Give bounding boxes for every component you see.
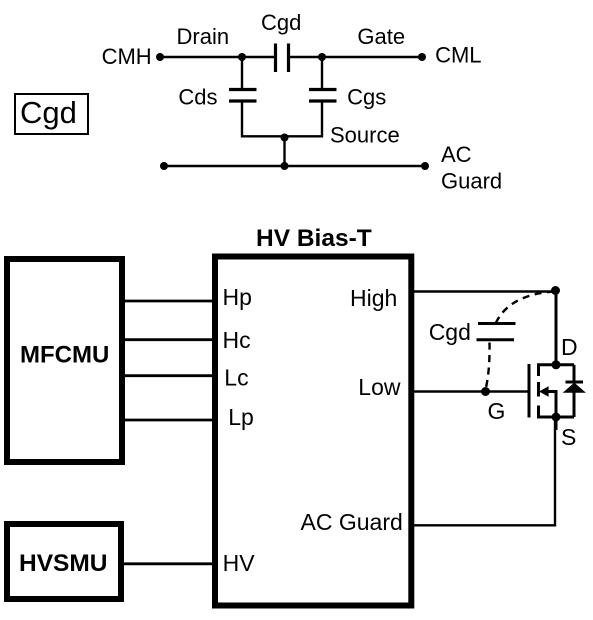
dashed wire High node to Cgd cap [496, 292, 554, 323]
svg-text:HVSMU: HVSMU [19, 550, 107, 577]
box HVSMU [7, 524, 121, 599]
node High [551, 286, 560, 295]
svg-text:CML: CML [435, 43, 481, 68]
terminal CML [418, 53, 426, 61]
terminal guard right (AC Guard) [421, 162, 429, 170]
svg-text:Cgd: Cgd [20, 95, 77, 130]
node guard middle [281, 162, 289, 170]
wire Cgs down to source rail [321, 103, 323, 138]
wire source down to guard rail [283, 136, 285, 166]
wire drain node down to Cds [241, 57, 243, 88]
body connection with arrow [546, 390, 558, 393]
capacitor Cgd (top schematic) [276, 44, 289, 73]
wire Low to gate [414, 390, 528, 392]
terminal CMH [156, 53, 164, 61]
svg-text:Hp: Hp [223, 284, 252, 310]
legend box Cgd [15, 94, 88, 134]
wire Hp [125, 300, 214, 303]
wire drain vertical [555, 291, 558, 365]
dashed wire Cgd cap to node G [486, 343, 490, 389]
svg-text:HV: HV [223, 550, 256, 576]
wire source vertical [555, 417, 558, 430]
box MFCMU [7, 259, 122, 462]
wire Cds down to source rail [241, 103, 243, 138]
svg-text:Cgs: Cgs [347, 85, 386, 110]
svg-text:High: High [350, 285, 397, 311]
capacitor Cgs [309, 90, 337, 102]
source rail [537, 416, 574, 419]
terminal guard left [160, 162, 168, 170]
svg-text:MFCMU: MFCMU [20, 342, 109, 369]
capacitor Cds [229, 90, 257, 102]
node source junction [281, 134, 289, 142]
svg-text:D: D [561, 334, 578, 360]
top schematic: wire CMH to Cgd left plate [160, 56, 275, 58]
body diode D1 [563, 365, 586, 417]
svg-text:Cds: Cds [178, 85, 217, 110]
channel segment middle [537, 382, 540, 397]
capacitor Cgd (right, dashed branch) [477, 324, 516, 340]
wire HV [124, 562, 214, 565]
svg-text:Cgd: Cgd [261, 10, 301, 35]
svg-text:Source: Source [330, 123, 400, 148]
svg-text:G: G [488, 398, 506, 424]
svg-text:Gate: Gate [357, 24, 405, 49]
channel segment top [537, 364, 540, 376]
svg-text:Lc: Lc [224, 365, 248, 391]
node gate [318, 53, 326, 61]
svg-text:Guard: Guard [441, 169, 502, 194]
svg-text:Low: Low [358, 374, 401, 400]
svg-text:HV Bias-T: HV Bias-T [256, 225, 372, 252]
channel segment bottom [537, 406, 540, 418]
wire gate node down to Cgs [321, 57, 323, 88]
svg-text:AC: AC [441, 142, 472, 167]
drain rail [537, 363, 574, 366]
node G [481, 387, 490, 396]
svg-text:S: S [561, 424, 576, 450]
wire Cgd right plate to CML [289, 56, 422, 58]
node S junction [552, 413, 561, 422]
gate bar [528, 364, 531, 418]
AC guard rail wire [164, 165, 425, 167]
wire Lc [125, 374, 214, 377]
svg-text:Drain: Drain [177, 24, 230, 49]
node D junction [552, 360, 561, 369]
box HV Bias-T [215, 257, 411, 606]
label AC Guard (two lines) [441, 142, 502, 194]
transistor Q1 MOSFET [529, 360, 574, 421]
node drain [238, 53, 246, 61]
svg-text:CMH: CMH [102, 44, 152, 69]
wire AC Guard output [414, 417, 555, 525]
source rail wire [242, 135, 322, 137]
svg-text:Lp: Lp [228, 404, 254, 430]
svg-text:Cgd: Cgd [429, 319, 471, 345]
svg-text:AC Guard: AC Guard [301, 509, 403, 535]
wire Hc [125, 338, 214, 341]
wire Lp [125, 419, 214, 422]
svg-text:Hc: Hc [223, 327, 251, 353]
wire High output [414, 290, 556, 292]
